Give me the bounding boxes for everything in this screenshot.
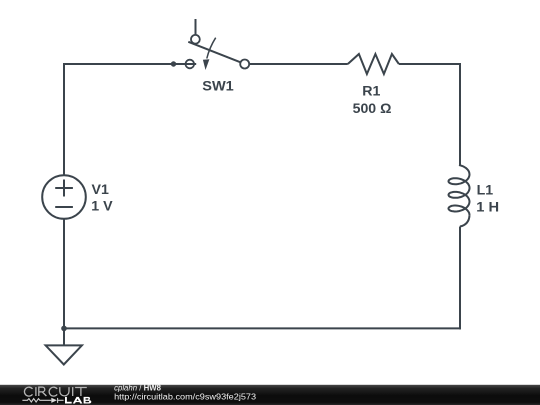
logo letter C <box>49 387 57 396</box>
voltage source circle body <box>42 175 86 219</box>
footer bar <box>0 385 540 405</box>
node junction dot left terminal <box>171 61 176 66</box>
plus sign vertical bar <box>63 180 65 197</box>
wire ground stub <box>63 328 65 345</box>
inductor L1 <box>449 165 470 227</box>
wire top-left horizontal through terminal <box>64 63 196 65</box>
minus sign bar <box>55 206 73 208</box>
wire left rail upper <box>63 63 65 175</box>
label L1 value <box>476 183 499 216</box>
svg-text:http://circuitlab.com/c9sw93fe: http://circuitlab.com/c9sw93fe2j573 <box>114 392 256 401</box>
svg-text:V1: V1 <box>92 182 109 198</box>
logo letter U <box>60 387 69 396</box>
logo LAB letter B <box>84 397 92 404</box>
logo LAB letter A <box>73 397 83 404</box>
ground <box>46 326 82 365</box>
svg-text:cplahn / HW8: cplahn / HW8 <box>114 383 161 392</box>
voltage source V1 <box>42 175 86 219</box>
switch actuation arrow arc <box>207 38 216 59</box>
logo letter T <box>75 388 87 397</box>
svg-text:500 Ω: 500 Ω <box>353 101 392 117</box>
wire left rail lower <box>63 219 65 329</box>
svg-text:SW1: SW1 <box>202 78 234 94</box>
logo letter R <box>39 387 47 396</box>
svg-text:L1: L1 <box>477 183 494 199</box>
node junction dot ground <box>61 326 67 332</box>
switch terminal circle left <box>186 60 195 69</box>
logo LAB letter L <box>65 397 72 404</box>
logo letter I <box>72 387 74 396</box>
ground triangle <box>46 345 82 364</box>
switch SW1 <box>64 35 249 70</box>
logo letter C <box>24 387 86 396</box>
switch arrowhead <box>203 59 210 70</box>
wire right rail upper <box>459 63 461 165</box>
switch terminal circle right <box>240 60 249 69</box>
resistor R1 <box>348 54 399 74</box>
switch terminal circle top <box>191 35 200 44</box>
switch blade <box>188 42 241 63</box>
svg-text:1 V: 1 V <box>91 199 113 215</box>
svg-text:R1: R1 <box>362 84 380 100</box>
label R1 value <box>353 84 392 117</box>
wire switch stub vertical <box>195 19 197 35</box>
wire resistor to top-right corner <box>399 63 461 65</box>
plus sign horizontal bar <box>55 187 73 189</box>
wire right rail lower <box>459 227 461 330</box>
svg-text:1 H: 1 H <box>476 199 499 215</box>
logo letter I <box>35 387 37 396</box>
wire bottom horizontal <box>63 327 461 329</box>
logo symbol resistor-diode <box>22 398 63 403</box>
label V1 value <box>91 182 113 215</box>
wire switch to resistor <box>249 63 348 65</box>
